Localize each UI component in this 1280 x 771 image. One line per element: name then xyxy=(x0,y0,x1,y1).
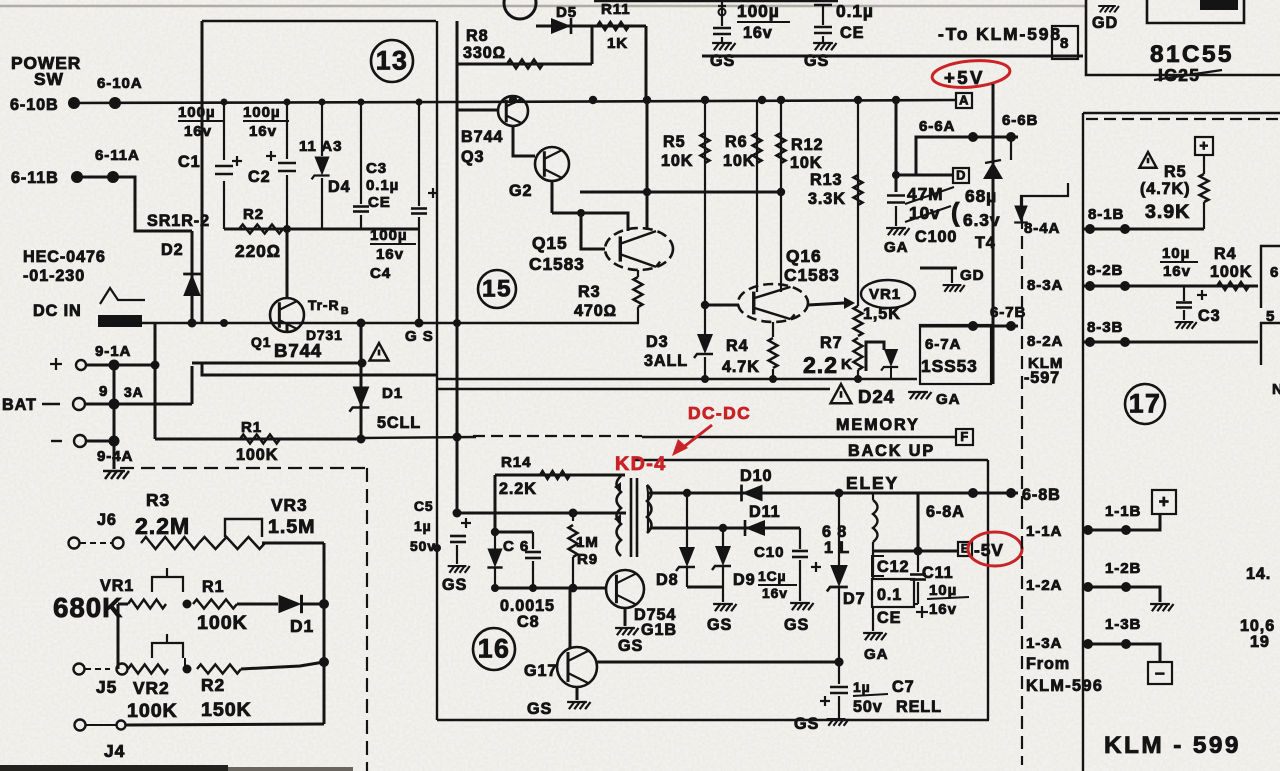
right edge box fragments xyxy=(1261,246,1280,308)
wire 68u stub xyxy=(1010,137,1012,160)
transistor Q1 B744 xyxy=(270,298,304,332)
wire GD xyxy=(920,267,957,270)
terminal battery minus xyxy=(74,435,86,447)
svg-text:R14: R14 xyxy=(501,454,531,471)
terminal box E xyxy=(958,542,972,556)
wire Q17 emitter xyxy=(576,687,579,700)
resistor R12 10K xyxy=(777,133,786,163)
svg-text:A: A xyxy=(959,92,969,107)
svg-text:R8: R8 xyxy=(466,27,489,45)
svg-text:B744: B744 xyxy=(274,340,322,361)
svg-text:3.3K: 3.3K xyxy=(808,190,846,208)
capacitor C4 column xyxy=(418,103,420,206)
svg-text:–: – xyxy=(1155,662,1165,682)
resistor R7 column / VR1 pot xyxy=(854,306,863,336)
svg-text:8-2B: 8-2B xyxy=(1087,262,1123,279)
svg-text:BACK UP: BACK UP xyxy=(848,442,935,460)
wire x592 xyxy=(591,26,594,64)
choke coil xyxy=(873,500,878,542)
strike IC25 xyxy=(1154,70,1222,80)
junction 6-10A xyxy=(109,97,121,109)
svg-text:1-2B: 1-2B xyxy=(1105,560,1141,577)
svg-text:R5: R5 xyxy=(1164,163,1187,181)
svg-text:D5: D5 xyxy=(556,4,577,21)
block16 outline xyxy=(633,459,988,461)
junction DC rail D2 xyxy=(188,319,197,328)
transformer secondary xyxy=(647,485,652,533)
terminal BAT 9-3A xyxy=(73,398,85,410)
capacitor C2 column xyxy=(286,103,288,159)
wire D1 column xyxy=(360,323,363,439)
svg-text:C8: C8 xyxy=(517,613,540,631)
wire VR1 row xyxy=(118,603,128,606)
svg-text:10µ: 10µ xyxy=(929,582,957,599)
capacitor C5 at box edge xyxy=(461,518,471,528)
svg-text:-597: -597 xyxy=(1024,369,1060,387)
box15 inner bottom edge xyxy=(437,378,917,380)
terminal J4 xyxy=(117,721,126,730)
svg-text:100K: 100K xyxy=(1210,263,1252,281)
label + terminal xyxy=(50,358,62,370)
svg-text:C100: C100 xyxy=(915,228,957,246)
resistor R4 column xyxy=(772,322,774,337)
box13 top edge xyxy=(202,20,436,22)
terminal box A xyxy=(956,93,972,108)
svg-text:N: N xyxy=(1272,381,1280,398)
svg-text:3ALL: 3ALL xyxy=(644,352,688,370)
diode D5 xyxy=(551,18,571,34)
svg-text:100µ: 100µ xyxy=(737,1,780,21)
diode D2 xyxy=(183,274,201,296)
resistor R9 1M xyxy=(572,513,574,521)
svg-text:D4: D4 xyxy=(328,178,351,196)
wire 1-2A xyxy=(1083,587,1160,602)
wire R11 down to rail xyxy=(645,26,648,100)
box 1SS53 xyxy=(920,325,991,384)
svg-text:6-7B: 6-7B xyxy=(990,304,1026,321)
resistor R7 2.2K xyxy=(854,338,863,370)
svg-text:GS: GS xyxy=(784,616,809,634)
transistor Q16 C1583 xyxy=(738,284,808,322)
wire 6-11 to SR1R-2 xyxy=(77,177,192,231)
svg-text:100µ: 100µ xyxy=(178,104,215,121)
wire line B xyxy=(202,363,437,375)
wire Q1 collector xyxy=(286,229,289,299)
svg-text:220Ω: 220Ω xyxy=(235,241,281,261)
junction 6-11B terminal xyxy=(71,171,83,183)
svg-text:R2: R2 xyxy=(243,206,264,223)
capacitor C12 / box 0.1 CE xyxy=(872,551,874,579)
resistor R1 100K xyxy=(240,435,280,444)
svg-text:VR3: VR3 xyxy=(271,495,308,515)
svg-text:DC-DC: DC-DC xyxy=(688,403,751,423)
svg-text:CE: CE xyxy=(840,24,864,42)
svg-text:GS: GS xyxy=(442,576,467,594)
svg-text:C12: C12 xyxy=(877,558,909,576)
transistor Q3 xyxy=(498,96,528,126)
svg-text:R4: R4 xyxy=(726,337,749,355)
svg-text:D8: D8 xyxy=(656,571,679,589)
svg-text:C4: C4 xyxy=(370,265,391,282)
svg-text:16v: 16v xyxy=(929,601,957,618)
svg-text:1-2A: 1-2A xyxy=(1026,577,1062,594)
wire right bus of trimmer block xyxy=(323,543,326,724)
svg-text:D1: D1 xyxy=(382,385,403,402)
wire J6 to right xyxy=(262,542,324,545)
inner vertical x457 xyxy=(456,21,459,437)
wire rail to Q15 collector xyxy=(646,100,649,230)
wire Q1 emitter xyxy=(286,323,289,331)
svg-text:G S: G S xyxy=(405,328,434,345)
terminal J5 xyxy=(117,664,128,675)
junction 9-1A rail xyxy=(151,361,160,370)
capacitor C1 xyxy=(215,166,233,174)
svg-text:MEMORY: MEMORY xyxy=(836,416,920,434)
svg-text:100µ: 100µ xyxy=(243,104,280,121)
capacitor 100u16v with GS xyxy=(721,8,723,26)
svg-text:C11: C11 xyxy=(922,564,954,582)
svg-text:D: D xyxy=(956,167,966,182)
wire Q18 emitter xyxy=(624,608,627,626)
ground GA C100 xyxy=(886,228,909,235)
terminal J6 outer xyxy=(69,538,80,549)
svg-text:F: F xyxy=(960,429,968,444)
terminal box minus 1-3B xyxy=(1148,662,1172,684)
terminal J5 outer xyxy=(74,664,85,675)
wire +5V column x993 xyxy=(992,84,995,384)
wire Q3 emitter to Q2 xyxy=(513,126,535,156)
svg-text:9: 9 xyxy=(99,383,108,400)
zener D4 xyxy=(312,157,330,180)
resistor R13 column xyxy=(857,100,859,306)
svg-text:1-3A: 1-3A xyxy=(1026,635,1062,652)
wire R5 4.7K column xyxy=(1203,155,1205,174)
svg-text:GA: GA xyxy=(884,239,908,256)
svg-text:SW: SW xyxy=(34,69,64,89)
svg-text:R13: R13 xyxy=(810,171,842,189)
svg-text:14.: 14. xyxy=(1246,565,1271,583)
wire R14 xyxy=(495,474,625,477)
svg-text:1.5M: 1.5M xyxy=(268,516,315,538)
wire to D box xyxy=(896,174,953,177)
ground GS cap2 xyxy=(813,43,836,50)
svg-text:C1583: C1583 xyxy=(784,265,840,285)
svg-text:GA: GA xyxy=(936,391,960,408)
svg-text:16v: 16v xyxy=(762,585,788,601)
resistor R5 3.9K xyxy=(1200,174,1209,202)
svg-text:G17: G17 xyxy=(524,662,557,680)
resistor R8 xyxy=(507,60,543,69)
wire 9-3A xyxy=(85,403,192,406)
svg-text:GD: GD xyxy=(960,267,984,284)
svg-text:K: K xyxy=(841,356,853,373)
wire to KLM-598 xyxy=(702,55,1083,58)
svg-text:B: B xyxy=(341,306,349,317)
svg-text:6: 6 xyxy=(1270,264,1279,281)
zener D3 column xyxy=(704,305,706,334)
capacitor C7 xyxy=(830,687,848,693)
transistor Q17 xyxy=(557,647,597,687)
boundary dash horizontal xyxy=(120,467,367,469)
svg-text:R2: R2 xyxy=(201,675,225,695)
svg-text:2.2M: 2.2M xyxy=(135,513,190,539)
svg-text:9-1A: 9-1A xyxy=(95,343,131,360)
svg-text:C 6: C 6 xyxy=(503,538,529,555)
svg-text:G1B: G1B xyxy=(641,621,677,639)
resistor R6 10K xyxy=(753,133,762,163)
svg-text:50v: 50v xyxy=(410,538,436,554)
svg-text:-5V: -5V xyxy=(974,540,1004,560)
svg-text:8: 8 xyxy=(1060,35,1069,52)
pot VR1 ellipse xyxy=(861,280,915,308)
wire R6 to Q16 xyxy=(756,287,758,292)
svg-text:6-8A: 6-8A xyxy=(926,503,965,521)
wire Q2 emitter xyxy=(551,181,554,213)
terminal J4 outer xyxy=(75,720,86,731)
svg-text:Q3: Q3 xyxy=(461,148,484,166)
resistor R2 150K xyxy=(197,665,241,674)
svg-text:Q16: Q16 xyxy=(786,246,822,266)
diode on x993 xyxy=(983,162,1003,179)
transistor Q18 D754 xyxy=(606,570,644,608)
zener D3 xyxy=(694,334,713,358)
svg-text:6-6B: 6-6B xyxy=(1002,112,1038,129)
svg-text:From: From xyxy=(1026,655,1070,673)
svg-text:T4: T4 xyxy=(975,234,996,252)
wire secondary lower rail xyxy=(650,527,800,530)
svg-text:2.2K: 2.2K xyxy=(499,480,537,498)
svg-text:6-11B: 6-11B xyxy=(11,169,59,187)
svg-text:8-2A: 8-2A xyxy=(1027,333,1063,350)
red arrow xyxy=(681,425,712,449)
wire to transformer xyxy=(457,512,626,515)
warning triangle D24 xyxy=(831,384,852,403)
wire DC-IN rail xyxy=(98,322,639,325)
svg-text:-To KLM-598: -To KLM-598 xyxy=(938,24,1062,44)
svg-text:0.1µ: 0.1µ xyxy=(836,1,874,21)
terminal J6 xyxy=(113,538,124,549)
svg-text:0.1µ: 0.1µ xyxy=(366,177,399,194)
svg-text:1K: 1K xyxy=(607,35,628,52)
wire D5/R11 row xyxy=(536,25,646,28)
resistor VR1 xyxy=(128,600,166,609)
wire C8 row xyxy=(495,587,605,590)
warning triangle R5 xyxy=(1139,152,1156,168)
svg-text:100K: 100K xyxy=(197,612,248,634)
svg-text:1-3B: 1-3B xyxy=(1105,616,1141,633)
cut transistor top xyxy=(504,0,536,19)
junction bus D1 xyxy=(319,657,329,667)
wire D2 column xyxy=(191,231,194,323)
svg-text:KD-4: KD-4 xyxy=(615,453,667,475)
svg-text:8-3A: 8-3A xyxy=(1027,277,1063,294)
svg-text:R1: R1 xyxy=(202,578,225,596)
ground GS C5 xyxy=(448,566,470,573)
svg-text:100µ: 100µ xyxy=(370,227,407,244)
svg-text:Q15: Q15 xyxy=(532,233,568,253)
svg-text:VR2: VR2 xyxy=(133,678,170,698)
svg-text:1-1B: 1-1B xyxy=(1105,503,1141,520)
wire VR1 left leg xyxy=(117,604,120,669)
svg-text:R3: R3 xyxy=(146,490,170,510)
svg-text:10K: 10K xyxy=(661,152,693,170)
svg-text:1-1A: 1-1A xyxy=(1026,523,1062,540)
diode D10 xyxy=(742,485,763,502)
transformer core xyxy=(630,478,633,557)
svg-text:GA: GA xyxy=(864,646,888,663)
wire R1 100K xyxy=(155,438,362,441)
junction 9-1A xyxy=(109,360,120,371)
ground GA D24 xyxy=(908,392,931,399)
resistor VR2 xyxy=(128,665,168,674)
svg-text:Tr-R: Tr-R xyxy=(308,297,339,313)
svg-text:6-10B: 6-10B xyxy=(10,96,59,114)
svg-text:13: 13 xyxy=(376,45,409,75)
wire minus xyxy=(86,440,114,443)
wire L2 to Q15 xyxy=(552,213,628,231)
resistor R4 100K xyxy=(1217,282,1249,290)
zener D4 column xyxy=(321,103,323,156)
svg-text:16v: 16v xyxy=(184,123,212,140)
ground GS Q17 xyxy=(567,702,590,709)
wire R2 to bus xyxy=(241,662,324,669)
svg-text:-01-230: -01-230 xyxy=(23,267,85,285)
wire 6-8 drop xyxy=(917,493,920,551)
bracket loop D-R7 xyxy=(866,342,884,371)
boundary dash vertical xyxy=(366,468,368,771)
capacitor C3 column xyxy=(360,103,362,204)
svg-text:KLM-596: KLM-596 xyxy=(1026,677,1103,695)
svg-text:5CLL: 5CLL xyxy=(377,414,421,432)
diode D9 xyxy=(722,528,724,548)
junction 6-11A xyxy=(107,171,119,183)
svg-text:R5: R5 xyxy=(663,133,686,151)
svg-text:0.1: 0.1 xyxy=(877,586,902,604)
svg-text:R7: R7 xyxy=(820,334,843,352)
wire x457 lower xyxy=(456,437,459,513)
svg-text:C5: C5 xyxy=(414,498,434,514)
wire R12 to Q16 xyxy=(780,287,782,292)
top edge line xyxy=(594,0,838,2)
svg-text:HEC-0476: HEC-0476 xyxy=(23,248,106,266)
ground on bottom wire xyxy=(827,719,849,726)
svg-text:16v: 16v xyxy=(249,123,277,140)
svg-text:6-8B: 6-8B xyxy=(1022,486,1061,504)
ground GD 81C55 xyxy=(1098,6,1119,12)
wire 6-7 xyxy=(920,325,1018,328)
svg-text:1µ: 1µ xyxy=(414,518,432,534)
capacitor C100 47M xyxy=(887,196,905,203)
wire D8-D9 xyxy=(687,586,723,589)
wire minus column xyxy=(113,365,116,469)
svg-text:C10: C10 xyxy=(754,544,784,561)
svg-text:D3: D3 xyxy=(646,333,669,351)
DC jack xyxy=(98,315,142,327)
svg-text:+: + xyxy=(1199,138,1208,155)
capacitor C3 xyxy=(353,207,369,212)
svg-text:Q1: Q1 xyxy=(251,334,271,350)
resistor R2 220 xyxy=(239,225,283,234)
wire Q16 base xyxy=(705,304,739,307)
svg-text:R11: R11 xyxy=(601,1,631,18)
svg-text:1Cµ: 1Cµ xyxy=(758,568,786,584)
svg-text:CE: CE xyxy=(368,194,391,211)
strike 47M xyxy=(905,187,954,204)
wire to D1 xyxy=(237,603,278,606)
svg-text:50v: 50v xyxy=(853,698,883,716)
svg-text:5: 5 xyxy=(1266,308,1275,325)
ground 1-2B xyxy=(1150,604,1173,611)
resistor R4 4.7K xyxy=(769,338,778,368)
wire -5V out xyxy=(873,550,958,553)
transistor Q15 C1583 xyxy=(605,228,673,270)
dash-dot boundary x1022 xyxy=(1021,196,1023,765)
wire 1-1A xyxy=(1083,514,1160,530)
IC 81C55 box xyxy=(1086,0,1280,75)
svg-text:15: 15 xyxy=(482,276,512,303)
block number 13 xyxy=(371,40,413,82)
svg-text:GS: GS xyxy=(707,616,732,634)
svg-text:16: 16 xyxy=(478,633,511,663)
wire Q16 to VR1 wiper xyxy=(808,303,844,305)
svg-text:(4.7K): (4.7K) xyxy=(1140,180,1190,198)
wire -5V top rail xyxy=(648,492,1018,495)
warning triangle xyxy=(370,343,389,361)
capacitor C1 column xyxy=(223,103,225,160)
wire C6 top xyxy=(495,531,533,534)
diode D11 xyxy=(745,520,765,536)
svg-text:J6: J6 xyxy=(97,511,117,529)
svg-text:R9: R9 xyxy=(577,551,598,568)
junction line A / D1 xyxy=(358,359,367,368)
wire J4 row xyxy=(126,724,324,725)
junction minus xyxy=(109,436,120,447)
box15 outer bottom edge xyxy=(437,388,830,390)
svg-text:9-4A: 9-4A xyxy=(97,448,133,465)
diode D6 xyxy=(494,532,496,549)
svg-text:J4: J4 xyxy=(104,741,125,761)
diode D7 / C7 column xyxy=(838,493,840,568)
svg-text:D7: D7 xyxy=(843,590,866,608)
svg-text:RELL: RELL xyxy=(896,698,942,716)
svg-text:VR1: VR1 xyxy=(869,286,901,303)
terminal box plus 1-1B xyxy=(1152,490,1176,514)
svg-text:3A: 3A xyxy=(124,384,144,400)
resistor R1 100K trim xyxy=(193,600,237,609)
ground GA C12 xyxy=(863,633,886,640)
transformer KD-4 primary xyxy=(617,476,622,556)
block number 15 xyxy=(478,270,516,308)
wire +5V rail 6-10B to A xyxy=(74,100,956,103)
svg-text:1M: 1M xyxy=(576,534,599,551)
diode D8 xyxy=(686,493,688,549)
svg-text:6-11A: 6-11A xyxy=(95,147,140,164)
svg-text:10µ: 10µ xyxy=(1162,245,1190,262)
resistor R5 10K xyxy=(701,133,710,163)
terminal box D xyxy=(953,168,969,183)
svg-text:1 L: 1 L xyxy=(824,539,850,557)
svg-text:ELEY: ELEY xyxy=(846,473,899,493)
svg-text:D10: D10 xyxy=(740,467,772,485)
terminal box F xyxy=(956,429,973,445)
minus terminal dash xyxy=(51,440,62,442)
svg-text:1µ: 1µ xyxy=(853,679,871,695)
wire vertical bus x1083 xyxy=(1082,113,1084,771)
wire L1 xyxy=(580,191,781,194)
svg-text:6.3v: 6.3v xyxy=(963,210,1000,230)
resistor R12 column xyxy=(780,100,782,287)
svg-text:1SS53: 1SS53 xyxy=(921,356,978,376)
